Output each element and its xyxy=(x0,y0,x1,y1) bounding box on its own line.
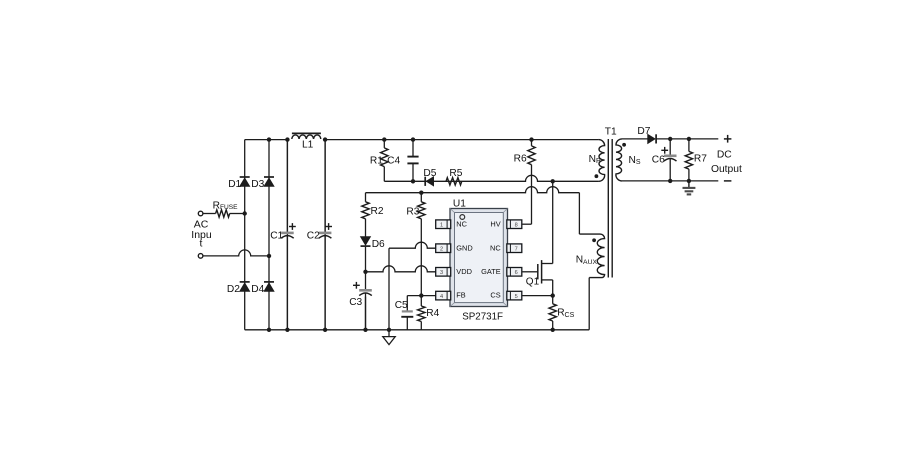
svg-text:D2: D2 xyxy=(227,284,240,295)
pin 4 box (FB) xyxy=(436,291,451,300)
svg-text:C5: C5 xyxy=(395,300,408,311)
junction: C2 top rail xyxy=(323,137,327,141)
transistor Q1 (MOSFET) xyxy=(537,264,539,279)
svg-text:1: 1 xyxy=(440,223,443,229)
wire: aux node R2-R3 to NAUX top (hops over R6 and drain lines) xyxy=(366,187,580,193)
junction: D4 ground rail xyxy=(267,328,271,332)
svg-text:Output: Output xyxy=(711,164,742,175)
wire: NAUX top vertical drop xyxy=(578,193,580,234)
svg-text:C6: C6 xyxy=(652,154,665,165)
wire: AC live input to RFUSE to bridge xyxy=(203,213,216,215)
phase dot NAUX xyxy=(592,238,596,242)
pin 2 box (GND) xyxy=(436,244,451,253)
junction: C1 ground rail xyxy=(285,328,289,332)
wire: bridge left vertical (D1/D2 branch) xyxy=(244,140,246,330)
resistor RCS xyxy=(549,304,556,321)
svg-text:L1: L1 xyxy=(302,140,314,151)
junction: R3 aux node xyxy=(419,191,423,195)
svg-text:NC: NC xyxy=(456,219,467,228)
wire: R6 branch (top rail to HV pin) xyxy=(531,140,533,146)
wire: C1 branch vertical xyxy=(286,140,288,330)
phase dot NS xyxy=(622,143,626,147)
wire: AC neutral input (hops over D1 branch) xyxy=(203,250,269,256)
resistor RFUSE xyxy=(216,210,230,217)
junction: C6 negative rail xyxy=(668,179,672,183)
diode D3 xyxy=(264,178,274,186)
wire: R2-D6-C3 column xyxy=(365,193,367,202)
svg-text:NC: NC xyxy=(490,243,501,252)
wire: bottom ground rail xyxy=(245,329,590,331)
junction: C3 ground rail xyxy=(363,328,367,332)
junction: C1 top rail xyxy=(285,137,289,141)
capacitor C5 xyxy=(402,310,413,312)
phase dot NP xyxy=(595,174,599,178)
resistor R4 xyxy=(418,306,425,322)
wire: top rail right segment (L1 to primary NP) xyxy=(325,139,598,141)
pin 3 box (VDD) xyxy=(436,268,451,277)
pin 1 indicator dot xyxy=(460,215,465,220)
svg-text:6: 6 xyxy=(515,270,518,276)
junction: C2 ground rail xyxy=(323,328,327,332)
diode D4 xyxy=(264,283,274,291)
transformer core xyxy=(607,139,609,278)
junction: R7 negative rail xyxy=(687,179,691,183)
terminal: AC input bottom xyxy=(198,254,203,259)
svg-text:R5: R5 xyxy=(449,168,462,179)
label: output minus xyxy=(724,180,732,182)
svg-text:C1: C1 xyxy=(270,231,283,242)
svg-text:3: 3 xyxy=(440,270,443,276)
wire: clamp node R1-C4-D5-R5 to NP bottom and Q1 drain (hops over R6 branch) xyxy=(384,175,598,181)
junction: R6 top rail xyxy=(529,137,533,141)
pin 1 box (NC) xyxy=(436,220,451,229)
junction: RFUSE to bridge xyxy=(243,211,247,215)
svg-text:VDD: VDD xyxy=(456,267,472,276)
capacitor C3 xyxy=(365,289,367,292)
diode D2 xyxy=(240,283,250,291)
svg-text:7: 7 xyxy=(515,247,518,253)
svg-text:R1: R1 xyxy=(370,156,383,167)
label: output plus xyxy=(724,138,732,140)
resistor R5 xyxy=(446,178,462,185)
svg-text:T1: T1 xyxy=(605,127,617,138)
resistor R1 xyxy=(381,148,388,167)
diode D7 xyxy=(648,134,655,143)
svg-text:D7: D7 xyxy=(637,126,650,137)
svg-text:R7: R7 xyxy=(694,154,707,165)
svg-text:GND: GND xyxy=(456,243,472,252)
op-amp U1 (SP2731F controller IC body) xyxy=(450,209,508,307)
wire: VDD pin wire (hops over GND return and R3 column) xyxy=(366,266,436,272)
diode D1 xyxy=(240,178,250,186)
svg-text:CS: CS xyxy=(490,291,500,300)
wire: top rail left segment (bridge to L1) xyxy=(245,139,288,141)
ground: primary ground arrow xyxy=(388,330,390,337)
svg-text:Q1: Q1 xyxy=(526,277,540,288)
resistor R2 xyxy=(362,202,369,219)
junction: CS node xyxy=(551,293,555,297)
resistor R7 xyxy=(688,139,690,152)
svg-text:GATE: GATE xyxy=(481,267,501,276)
junction: VDD node at C3/D6 xyxy=(363,270,367,274)
junction: C4 clamp node xyxy=(411,179,415,183)
svg-text:D6: D6 xyxy=(372,239,385,250)
wire: RCS branch xyxy=(552,296,554,304)
svg-text:R3: R3 xyxy=(406,206,419,217)
wire: Q1 drain riser xyxy=(552,181,554,263)
inductor L1 xyxy=(292,135,321,139)
pin 8 box (HV) xyxy=(507,220,522,229)
junction: C6 positive rail xyxy=(668,137,672,141)
wire: R1 branch stub xyxy=(383,140,385,148)
winding NP (primary) xyxy=(599,140,605,182)
svg-text:t: t xyxy=(200,238,203,250)
svg-text:HV: HV xyxy=(490,219,500,228)
svg-text:SP2731F: SP2731F xyxy=(462,312,503,323)
winding NS (secondary) xyxy=(616,139,622,181)
svg-text:DC: DC xyxy=(717,149,732,160)
wire: R4 stub (FB node to ground rail) xyxy=(420,296,422,306)
junction: RCS ground rail xyxy=(551,328,555,332)
junction: C4 top rail xyxy=(411,137,415,141)
junction: AC neutral to D4 branch xyxy=(267,254,271,258)
capacitor C6 xyxy=(669,139,671,155)
junction: R7 positive rail xyxy=(687,137,691,141)
svg-text:D5: D5 xyxy=(423,168,436,179)
svg-text:8: 8 xyxy=(515,223,518,229)
wire: C4 branch stub xyxy=(412,140,414,157)
junction: ground arrow tap xyxy=(387,328,391,332)
wire: GND pin return (hops over R3 column) xyxy=(389,242,436,248)
wire: output negative rail xyxy=(622,180,718,182)
svg-text:D4: D4 xyxy=(251,284,264,295)
svg-text:4: 4 xyxy=(440,294,443,300)
wire: CS pin to Q1 source / RCS node xyxy=(522,295,552,297)
ground: output earth ground xyxy=(688,181,690,187)
svg-text:2: 2 xyxy=(440,247,443,253)
svg-text:C3: C3 xyxy=(349,297,362,308)
svg-text:D1: D1 xyxy=(228,179,241,190)
wire: C5 branch xyxy=(406,296,408,311)
capacitor C2 xyxy=(324,140,326,233)
svg-text:R4: R4 xyxy=(426,308,439,319)
wire: Q1 source to CS node xyxy=(552,280,554,296)
pin 5 box (CS) xyxy=(507,291,522,300)
wire: C2 branch vertical xyxy=(324,140,326,330)
svg-text:D3: D3 xyxy=(251,179,264,190)
terminal: AC input top xyxy=(198,211,203,216)
svg-text:C4: C4 xyxy=(387,156,400,167)
svg-text:R2: R2 xyxy=(371,206,384,217)
winding NAUX (auxiliary) xyxy=(579,234,604,278)
junction: D3 top rail xyxy=(267,137,271,141)
pin 7 box (NC) xyxy=(507,244,522,253)
pin 6 box (GATE) xyxy=(507,268,522,277)
wire: output positive rail xyxy=(656,138,718,140)
diode D5 xyxy=(426,177,433,186)
resistor R3 xyxy=(418,202,425,219)
wire: GATE pin to Q1 gate xyxy=(522,271,538,273)
svg-text:R6: R6 xyxy=(514,154,527,165)
wire: FB pin wire xyxy=(407,295,436,297)
wire: R3 column (aux node to FB node) xyxy=(420,193,422,202)
resistor R6 xyxy=(528,146,535,165)
svg-text:5: 5 xyxy=(515,294,518,300)
svg-text:C2: C2 xyxy=(307,231,320,242)
capacitor C1 xyxy=(286,140,288,233)
diode D6 xyxy=(361,237,371,245)
capacitor C4 xyxy=(407,156,418,158)
svg-text:U1: U1 xyxy=(453,198,466,209)
svg-text:FB: FB xyxy=(456,291,466,300)
wire: NAUX bottom return to ground rail xyxy=(588,278,590,330)
wire: bridge right vertical (D3/D4 branch) xyxy=(268,140,270,330)
junction: FB node xyxy=(419,293,423,297)
junction: R1 top rail xyxy=(382,137,386,141)
junction: drain node on clamp wire xyxy=(551,179,555,183)
